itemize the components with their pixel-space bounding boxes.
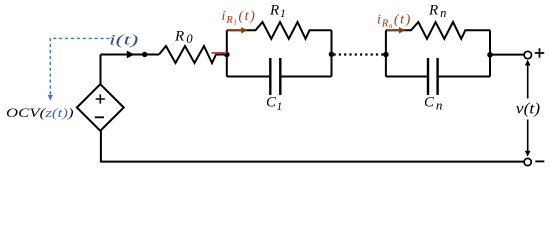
svg-text:iRn(t): iRn(t) (377, 12, 412, 30)
svg-text:Rn: Rn (428, 3, 446, 21)
svg-text:iR1(t): iR1(t) (222, 9, 257, 27)
svg-text:v(t): v(t) (516, 100, 540, 118)
svg-text:R0: R0 (174, 28, 193, 46)
svg-text:OCV(z(t)): OCV(z(t)) (6, 107, 74, 121)
svg-text:R1: R1 (269, 3, 286, 21)
svg-text:C1: C1 (266, 95, 282, 113)
svg-text:Cn: Cn (424, 95, 442, 113)
svg-text:i(t): i(t) (109, 32, 139, 48)
